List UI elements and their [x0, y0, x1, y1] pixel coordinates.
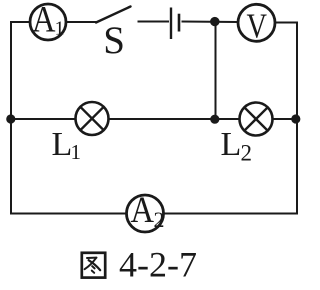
svg-text:1: 1 [55, 18, 65, 40]
svg-text:2: 2 [154, 207, 165, 232]
svg-text:V: V [247, 7, 268, 46]
svg-text:A: A [131, 190, 155, 231]
svg-text:L: L [221, 126, 242, 163]
svg-text:L: L [52, 126, 73, 163]
svg-text:2: 2 [241, 141, 253, 166]
svg-text:1: 1 [71, 140, 82, 164]
svg-text:A: A [32, 0, 56, 41]
svg-text:S: S [103, 19, 125, 62]
svg-text:4-2-7: 4-2-7 [119, 245, 197, 285]
